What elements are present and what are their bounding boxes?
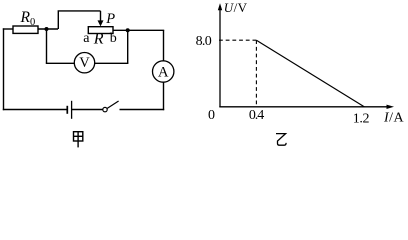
label 0 origin (208, 108, 215, 123)
resistor R0 (13, 26, 38, 33)
rheostat R body (88, 27, 113, 34)
wire top-left horizontal (3, 28, 13, 30)
svg-text:1.2: 1.2 (353, 112, 370, 127)
switch S (103, 101, 119, 112)
label 8.0 (196, 34, 212, 49)
label b (110, 31, 117, 46)
label jia (甲) (74, 132, 83, 148)
ammeter A (153, 61, 174, 82)
svg-text:I/A: I/A (383, 110, 405, 125)
svg-text:P: P (105, 11, 115, 27)
svg-text:V: V (79, 55, 90, 71)
dashed guide horizontal at U=8.0 (219, 39, 256, 41)
svg-text:0.4: 0.4 (249, 108, 264, 123)
wire junction A down to voltmeter level (46, 29, 48, 63)
label a (83, 31, 90, 46)
wire up and over to slider (58, 11, 100, 29)
wire bottom right segment (120, 109, 165, 111)
label U/V (224, 0, 248, 15)
wire bottom left segment (3, 109, 67, 111)
node junction B (126, 28, 130, 32)
svg-text:U/V: U/V (224, 0, 248, 15)
wire left vertical (3, 28, 5, 110)
svg-text:R: R (93, 31, 104, 48)
y-axis U/V (218, 3, 222, 107)
svg-text:a: a (83, 31, 90, 46)
wire resistor to junction (38, 28, 58, 30)
wire to voltmeter left (46, 62, 75, 64)
wire voltmeter up to junction B (127, 30, 129, 63)
svg-text:8.0: 8.0 (196, 34, 212, 49)
label R (93, 31, 104, 48)
wire battery to switch (72, 109, 103, 111)
label I/A (383, 110, 405, 125)
U-I line (256, 40, 364, 107)
wire ammeter to bottom-right corner (163, 82, 165, 110)
label yi (乙) (276, 134, 286, 146)
label P (105, 11, 115, 27)
svg-text:0: 0 (208, 108, 215, 123)
label 0.4 (249, 108, 264, 123)
x-axis I/A (219, 105, 394, 109)
dashed guide vertical at I=0.4 (255, 40, 257, 107)
svg-text:R0: R0 (20, 9, 36, 28)
rheostat slider arm with arrow (98, 11, 104, 27)
label 1.2 (353, 112, 370, 127)
voltmeter V (74, 53, 94, 73)
svg-text:A: A (158, 65, 169, 81)
wire right vertical to ammeter (163, 30, 165, 61)
wire rheostat b to top-right corner (113, 29, 164, 31)
battery cell (67, 101, 71, 119)
label R0 (20, 9, 36, 28)
svg-text:b: b (110, 31, 117, 46)
node junction A (45, 27, 49, 31)
wire voltmeter right (95, 62, 129, 64)
